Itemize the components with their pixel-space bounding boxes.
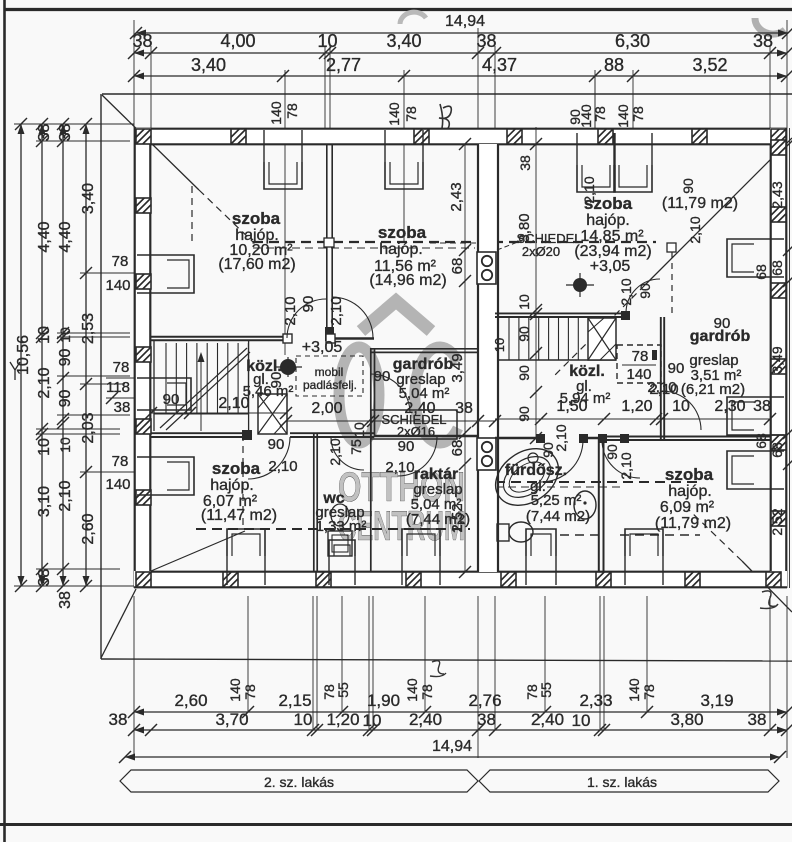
svg-text:10: 10 xyxy=(57,327,73,343)
door post black lower szoba xyxy=(242,430,252,440)
svg-text:padlásfelj.: padlásfelj. xyxy=(303,378,357,392)
window lower szoba bottom wall xyxy=(227,556,265,585)
interior dim line kozl left unit xyxy=(286,420,495,422)
svg-text:2,10: 2,10 xyxy=(36,367,53,398)
bottom extension lines xyxy=(133,596,135,758)
svg-text:90: 90 xyxy=(516,406,532,422)
svg-text:(11,47 m2): (11,47 m2) xyxy=(201,507,277,524)
roof ridge dashed bold xyxy=(253,241,656,243)
roof hip bottom-right dashed xyxy=(688,509,742,561)
hatched pier top wall 7 xyxy=(771,129,786,144)
window lower right szoba right wall xyxy=(754,451,784,489)
svg-text:10: 10 xyxy=(36,438,53,456)
door arc wc xyxy=(331,437,364,470)
svg-text:szoba: szoba xyxy=(665,465,714,484)
svg-text:2,40: 2,40 xyxy=(531,710,564,729)
svg-text:2,10: 2,10 xyxy=(618,452,634,479)
hatched pier top wall 2 xyxy=(231,129,246,144)
svg-text:90: 90 xyxy=(374,368,391,385)
svg-text:78: 78 xyxy=(403,106,419,122)
svg-text:90: 90 xyxy=(516,326,532,342)
svg-text:3,52: 3,52 xyxy=(692,55,727,75)
svg-text:38: 38 xyxy=(476,31,496,51)
svg-text:2,10: 2,10 xyxy=(328,296,345,325)
door post right szoba door xyxy=(621,311,630,320)
svg-text:90: 90 xyxy=(668,360,685,377)
roof lower dashed near windows xyxy=(560,534,600,536)
hatched pier bottom-left corner xyxy=(136,572,151,587)
washbasin right unit xyxy=(574,491,596,519)
staircase right landing x-box xyxy=(588,318,616,360)
roof line dashed thin xyxy=(253,247,475,249)
svg-text:38: 38 xyxy=(57,591,74,609)
window stair left wall xyxy=(137,378,167,410)
svg-text:38: 38 xyxy=(517,155,533,171)
left extension lines xyxy=(14,123,134,125)
svg-text:4,37: 4,37 xyxy=(482,55,517,75)
svg-text:2,03: 2,03 xyxy=(80,412,97,443)
svg-text:2,10: 2,10 xyxy=(282,296,299,325)
hatched pier bottom wall 5 xyxy=(596,572,611,587)
wall lower szoba top xyxy=(151,432,248,434)
left dim chain 38|4,40|10|90|90|10|2,10|38 xyxy=(62,124,64,586)
door arc raktar xyxy=(398,437,437,476)
svg-text:hajóp.: hajóp. xyxy=(668,483,712,500)
svg-text:78: 78 xyxy=(419,684,435,700)
hatched pier right wall 2 xyxy=(771,207,786,222)
svg-text:1. sz. lakás: 1. sz. lakás xyxy=(587,774,657,790)
wall szoba1 bottom / kozl top xyxy=(151,336,287,338)
handwritten scribble bottom right xyxy=(760,591,778,609)
svg-text:hajóp.: hajóp. xyxy=(379,241,423,258)
bathtub xyxy=(485,437,569,517)
svg-text:2,77: 2,77 xyxy=(326,55,361,75)
svg-text:3,70: 3,70 xyxy=(215,710,248,729)
svg-text:(7,44 m2): (7,44 m2) xyxy=(406,511,470,528)
hatched pier right wall 5 xyxy=(771,435,786,450)
svg-text:75: 75 xyxy=(348,439,364,455)
svg-text:78: 78 xyxy=(632,348,649,365)
svg-text:90: 90 xyxy=(604,444,620,460)
svg-text:1,20: 1,20 xyxy=(621,398,652,415)
svg-text:38: 38 xyxy=(748,710,767,729)
roof hip top-left dashed xyxy=(199,190,253,242)
svg-text:(17,60 m2): (17,60 m2) xyxy=(218,256,295,273)
window raktar bottom wall xyxy=(402,556,440,585)
hatched pier top wall 5 xyxy=(598,129,613,144)
staircase left walking line xyxy=(200,355,202,431)
svg-text:88: 88 xyxy=(604,55,624,75)
wall gardrob-left left side xyxy=(370,348,372,572)
svg-text:3,40: 3,40 xyxy=(386,31,421,51)
svg-text:(14,96 m2): (14,96 m2) xyxy=(369,272,446,289)
top dim chain row 38|4,00|10|3,40|38|6,30|38 xyxy=(134,52,787,54)
svg-text:6,09 m²: 6,09 m² xyxy=(660,499,715,516)
svg-text:78: 78 xyxy=(284,103,300,119)
svg-text:fürdősz.: fürdősz. xyxy=(505,462,567,479)
svg-text:140: 140 xyxy=(386,102,402,126)
svg-text:10: 10 xyxy=(672,398,690,415)
window right szoba top wall 2 xyxy=(614,133,652,165)
hatched pier left wall 4 xyxy=(136,419,151,434)
svg-text:90: 90 xyxy=(637,283,653,299)
door arc furdo xyxy=(541,440,583,482)
hatched pier right wall 3 xyxy=(771,283,786,298)
svg-text:10: 10 xyxy=(492,338,507,352)
scan smudge top-right crescent xyxy=(755,18,785,34)
svg-text:10: 10 xyxy=(351,422,367,438)
watermark O glyph xyxy=(339,347,379,443)
hatched pier bottom wall 7 xyxy=(766,572,781,587)
top extension lines xyxy=(133,20,135,128)
svg-text:szoba: szoba xyxy=(584,194,633,213)
wall raktar top xyxy=(374,435,478,437)
handwritten scribble near top xyxy=(439,104,451,131)
svg-text:10: 10 xyxy=(294,710,313,729)
hatched pier right wall 4 xyxy=(771,359,786,374)
svg-text:hajóp.: hajóp. xyxy=(210,477,254,494)
window szoba2 top wall xyxy=(385,130,423,162)
svg-text:10: 10 xyxy=(572,711,591,730)
hatched pier bottom wall 4 xyxy=(501,572,516,587)
hatched pier right wall 6 xyxy=(771,511,786,526)
roof dashed vertical in lower szoba xyxy=(242,434,244,528)
left stairwell x-box xyxy=(258,394,287,434)
right margin dim line xyxy=(789,128,791,588)
svg-text:10: 10 xyxy=(36,326,53,344)
svg-text:78: 78 xyxy=(630,106,646,122)
svg-text:szoba: szoba xyxy=(378,223,427,242)
top dim chain row 3,40|2,77|4,37|88|3,52 xyxy=(134,75,787,77)
svg-text:+3,05: +3,05 xyxy=(302,339,343,356)
svg-text:2,10: 2,10 xyxy=(57,480,74,511)
svg-text:2,53: 2,53 xyxy=(80,313,97,344)
roof lower dashed left unit xyxy=(196,528,470,530)
svg-text:2,10: 2,10 xyxy=(649,381,678,398)
window right szoba top wall 1 xyxy=(577,133,615,165)
svg-text:2,10: 2,10 xyxy=(327,438,343,465)
svg-text:38: 38 xyxy=(753,398,771,415)
svg-text:90: 90 xyxy=(57,349,74,367)
window lower szoba left wall xyxy=(137,457,167,495)
svg-text:10: 10 xyxy=(363,711,382,730)
roof dashed vertical in szoba1 xyxy=(191,186,193,242)
svg-text:1,33 m²: 1,33 m² xyxy=(316,518,367,535)
door arc lower right szoba xyxy=(602,440,640,478)
hatched pier right wall 1 xyxy=(771,140,786,155)
svg-text:140: 140 xyxy=(227,678,243,702)
svg-text:55: 55 xyxy=(538,682,554,698)
wall between szoba1 and szoba2 xyxy=(326,144,328,340)
svg-text:78: 78 xyxy=(112,253,129,270)
svg-text:2,15: 2,15 xyxy=(278,691,311,710)
eaves outline top xyxy=(102,93,792,95)
roof hip top-left solid xyxy=(102,95,199,190)
svg-text:5,25 m²: 5,25 m² xyxy=(531,492,582,509)
svg-text:140: 140 xyxy=(626,366,651,383)
roof valley node square xyxy=(667,243,676,252)
svg-text:1,20: 1,20 xyxy=(326,710,359,729)
svg-text:38: 38 xyxy=(455,400,473,417)
watermark roof chevron xyxy=(361,301,431,331)
svg-text:4,40: 4,40 xyxy=(36,221,53,252)
staircase left unit xyxy=(165,343,167,414)
svg-text:1,90: 1,90 xyxy=(367,691,400,710)
window right szoba bottom wall xyxy=(625,556,663,585)
svg-text:(7,44 m2): (7,44 m2) xyxy=(526,508,590,525)
svg-text:2xØ16: 2xØ16 xyxy=(397,424,435,439)
svg-text:90: 90 xyxy=(398,438,415,455)
svg-text:2,60: 2,60 xyxy=(174,691,207,710)
bottom exterior wall xyxy=(134,571,787,588)
washbasin wc left unit xyxy=(328,531,352,556)
party wall between units xyxy=(477,144,499,572)
chimney schiedel 2xO20 on party wall xyxy=(477,252,496,284)
svg-text:5,46 m²: 5,46 m² xyxy=(243,383,294,400)
svg-text:(6,21 m2): (6,21 m2) xyxy=(681,381,745,398)
toilet right unit xyxy=(497,524,509,541)
svg-text:38: 38 xyxy=(477,710,496,729)
door arc gardrob left xyxy=(371,374,410,413)
door posts lower right szoba door xyxy=(598,434,607,443)
interior dim line kozl right unit xyxy=(495,418,770,420)
svg-text:2,52: 2,52 xyxy=(769,508,785,535)
hatched pier top wall 6 xyxy=(692,129,707,144)
left dim chain 3,40|2,53|2,03|2,60 xyxy=(85,124,87,586)
svg-text:68: 68 xyxy=(449,258,466,275)
top exterior wall xyxy=(134,128,787,145)
svg-text:2xØ20: 2xØ20 xyxy=(522,244,560,259)
svg-text:78: 78 xyxy=(242,684,258,700)
svg-text:90: 90 xyxy=(57,390,74,408)
staircase right unit xyxy=(508,318,510,360)
roof peak marker right xyxy=(573,278,587,292)
svg-text:140: 140 xyxy=(268,101,284,125)
svg-text:mobil: mobil xyxy=(315,365,344,379)
hatched pier left wall 2 xyxy=(136,274,151,289)
chimney block schiedel 2xO16 left unit xyxy=(371,410,457,439)
roof hip top-right dashed xyxy=(553,285,645,377)
door posts furdo door xyxy=(536,434,545,443)
svg-text:14,94: 14,94 xyxy=(432,738,472,755)
svg-text:78: 78 xyxy=(113,359,130,376)
svg-text:14,94: 14,94 xyxy=(445,13,485,30)
svg-text:78: 78 xyxy=(592,106,608,122)
svg-text:2,76: 2,76 xyxy=(468,691,501,710)
window szoba1 left wall xyxy=(137,255,167,293)
svg-text:10: 10 xyxy=(317,31,337,51)
wall kozl top right segment xyxy=(326,337,374,340)
hatched pier left wall 3 xyxy=(136,347,151,362)
svg-text:140: 140 xyxy=(105,476,130,493)
window szoba1 top wall xyxy=(264,130,302,162)
eaves outline bottom xyxy=(101,659,792,661)
svg-text:2,33: 2,33 xyxy=(579,691,612,710)
hatched pier bottom wall 6 xyxy=(685,572,700,587)
svg-text:68: 68 xyxy=(769,260,785,276)
left dim chain 38|4,40|10|2,10|10|3,10|38 xyxy=(41,124,43,586)
svg-text:90: 90 xyxy=(516,365,532,381)
svg-text:68: 68 xyxy=(769,442,785,458)
svg-text:szoba: szoba xyxy=(232,209,281,228)
left overall dim 10,56 xyxy=(20,124,22,586)
svg-text:140: 140 xyxy=(404,678,420,702)
hatched pier left wall 1 xyxy=(136,198,151,213)
wall right stair top xyxy=(495,312,626,314)
roof valley dashed vertical xyxy=(671,252,673,313)
handwritten scribble bottom center xyxy=(430,661,446,677)
scan smudge top-center crescent xyxy=(400,12,426,24)
hatched pier left wall 5 xyxy=(136,490,151,505)
watermark C glyph xyxy=(415,347,458,443)
hatched pier bottom wall 3 xyxy=(406,572,421,587)
wall gardrob-right left side xyxy=(660,317,662,440)
door arc right szoba entry xyxy=(626,279,660,313)
svg-text:68: 68 xyxy=(753,433,769,449)
svg-text:38: 38 xyxy=(132,31,152,51)
svg-text:38: 38 xyxy=(36,124,53,142)
window furdo bottom wall xyxy=(526,556,556,585)
svg-text:2,40: 2,40 xyxy=(409,710,442,729)
svg-text:2,10: 2,10 xyxy=(687,216,703,243)
svg-text:38: 38 xyxy=(57,124,74,142)
attic access marker left xyxy=(280,359,296,375)
svg-text:gardrób: gardrób xyxy=(690,328,751,345)
page frame left border xyxy=(3,0,6,842)
svg-text:38: 38 xyxy=(109,710,128,729)
hatched pier top wall 3 xyxy=(414,129,429,144)
window right szoba right wall xyxy=(754,239,784,277)
bottom dim chain 2,60|2,15|1,90|2,76|2,33|3,19 xyxy=(134,711,787,713)
svg-text:5,94 m²: 5,94 m² xyxy=(560,390,611,407)
svg-text:10,56: 10,56 xyxy=(15,335,32,375)
svg-text:3,40: 3,40 xyxy=(80,183,97,214)
page frame bottom border xyxy=(0,823,792,826)
svg-text:10: 10 xyxy=(57,437,73,453)
unit label bar 1. sz. lakas xyxy=(479,770,779,792)
svg-text:38: 38 xyxy=(114,399,131,416)
svg-text:90: 90 xyxy=(300,296,317,313)
svg-text:6,30: 6,30 xyxy=(615,31,650,51)
svg-text:3,80: 3,80 xyxy=(670,710,703,729)
svg-text:118: 118 xyxy=(106,379,130,396)
window gardrob right wall xyxy=(754,397,784,435)
svg-text:+3,05: +3,05 xyxy=(590,258,631,275)
svg-text:78: 78 xyxy=(112,453,129,470)
svg-text:szoba: szoba xyxy=(212,459,261,478)
unit label bar 2. sz. lakas xyxy=(120,770,478,792)
wall gardrob-left top xyxy=(371,348,478,350)
svg-text:140: 140 xyxy=(615,104,631,128)
svg-text:3,40: 3,40 xyxy=(191,55,226,75)
svg-text:140: 140 xyxy=(105,277,130,294)
svg-text:(11,79 m2): (11,79 m2) xyxy=(655,515,731,532)
roof hip bottom-left inner solid xyxy=(151,531,245,571)
dashed box 78|140 xyxy=(617,345,661,383)
svg-text:55: 55 xyxy=(335,682,351,698)
svg-text:2,43: 2,43 xyxy=(448,182,465,211)
party wall dim line xyxy=(464,144,466,572)
door arc szoba2 to kozl xyxy=(332,297,373,338)
hatched pier top wall 1 xyxy=(136,129,151,144)
svg-text:2,43: 2,43 xyxy=(769,181,785,208)
roof hip bottom-left eaves diagonal xyxy=(101,589,136,658)
window wc bottom wall xyxy=(329,556,355,585)
roof hip top-right solid xyxy=(645,138,792,285)
bottom dim chain 38|3,70|10|1,20|10|2,40|38|2,40|10|3,80|38 xyxy=(134,729,787,731)
interior vertical dim line right unit xyxy=(535,127,537,438)
wall furdo top xyxy=(495,437,541,439)
svg-text:3,10: 3,10 xyxy=(36,486,53,517)
svg-text:4,00: 4,00 xyxy=(220,31,255,51)
svg-text:90: 90 xyxy=(680,178,696,194)
left margin tick mark xyxy=(10,362,20,380)
svg-text:2,10: 2,10 xyxy=(618,278,634,305)
page frame top border xyxy=(4,8,792,11)
wall furdo right / lower szoba left xyxy=(598,438,600,572)
roof hip bottom-right solid xyxy=(742,561,792,612)
svg-text:140: 140 xyxy=(626,678,642,702)
wall lower szoba top right segment xyxy=(290,432,374,434)
right exterior wall xyxy=(770,128,787,588)
svg-text:68: 68 xyxy=(753,264,769,280)
svg-text:3,49: 3,49 xyxy=(769,346,785,373)
svg-text:2,10: 2,10 xyxy=(385,459,414,476)
svg-text:78: 78 xyxy=(641,684,657,700)
svg-text:2. sz. lakás: 2. sz. lakás xyxy=(264,774,334,790)
svg-text:2,60: 2,60 xyxy=(80,513,97,544)
svg-text:2,10: 2,10 xyxy=(268,458,297,475)
dashed box mobil padlasfeljaro xyxy=(296,356,363,396)
svg-text:5,04 m²: 5,04 m² xyxy=(399,385,450,402)
svg-text:38: 38 xyxy=(36,569,53,587)
door arc gardrob right xyxy=(662,391,701,430)
svg-text:3,19: 3,19 xyxy=(700,691,733,710)
hatched pier top wall 4 xyxy=(507,129,522,144)
svg-text:68: 68 xyxy=(449,440,466,457)
svg-text:2,30: 2,30 xyxy=(714,398,745,415)
svg-text:90: 90 xyxy=(163,391,180,408)
wall gardrob-right bottom xyxy=(604,436,770,438)
wall wc left side xyxy=(313,434,315,572)
toilet wc left unit xyxy=(331,504,349,526)
hatched pier bottom wall 2 xyxy=(316,572,331,587)
svg-text:90: 90 xyxy=(268,436,285,453)
svg-text:4,40: 4,40 xyxy=(57,221,74,252)
left exterior wall xyxy=(134,128,151,588)
svg-text:10: 10 xyxy=(516,294,532,310)
svg-text:hajóp.: hajóp. xyxy=(586,212,630,229)
door arc szoba1 to kozl xyxy=(287,299,326,338)
svg-text:90: 90 xyxy=(567,109,583,125)
roof lower dashed right unit xyxy=(495,481,700,483)
hatched pier bottom wall 1 xyxy=(223,572,238,587)
eaves outline left xyxy=(100,94,102,659)
chimney schiedel 2xO16 on party wall lower xyxy=(477,438,496,470)
svg-text:2,00: 2,00 xyxy=(311,400,342,417)
door arc lower szoba left xyxy=(248,437,290,479)
svg-text:(11,79 m2): (11,79 m2) xyxy=(662,195,738,212)
